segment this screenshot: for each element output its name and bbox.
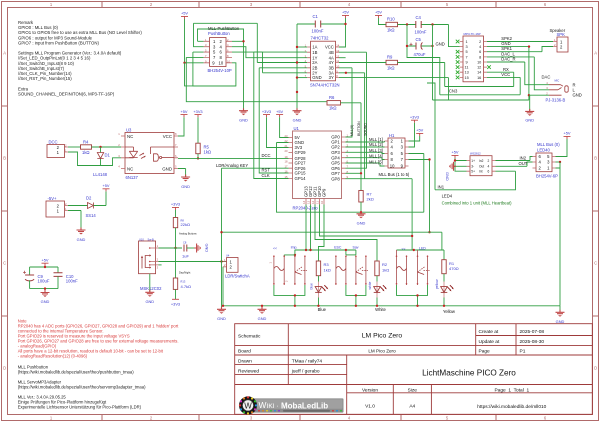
junction WS2812 vcc: [454, 159, 456, 161]
svg-text:GP15: GP15: [295, 171, 307, 176]
remark text block top-left: [18, 20, 142, 96]
svg-text:GND: GND: [162, 166, 172, 171]
wire cap top rail: [30, 267, 58, 275]
svg-text:3-: 3-: [471, 165, 474, 169]
title block horizontal dividers: [476, 335, 593, 337]
wire D2 to +5V: [94, 191, 107, 205]
ground (supply): [77, 228, 86, 235]
power +3V3 (U1): [262, 109, 271, 117]
svg-text:LL4148: LL4148: [93, 172, 108, 177]
svg-text:PJ-3136-B: PJ-3136-B: [546, 98, 566, 103]
svg-text:jueff / gerabo: jueff / gerabo: [291, 368, 320, 374]
resistor R5: [196, 143, 211, 154]
wire pushbutton pin9 row: [185, 62, 204, 64]
svg-text:12: 12: [477, 66, 481, 70]
wire +5V rail down left of pushbutton: [184, 19, 186, 63]
junction bus pair1: [294, 305, 296, 307]
power +3V3 (divider top): [171, 202, 180, 210]
svg-text:LM Pico Zero: LM Pico Zero: [362, 332, 403, 339]
TITLEBLOCK: [235, 324, 593, 415]
svg-text:10: 10: [390, 164, 395, 169]
svg-text:19: 19: [285, 155, 288, 159]
svg-text:4Y: 4Y: [329, 60, 334, 65]
svg-text:+3V3: +3V3: [171, 302, 180, 307]
svg-text:14: 14: [477, 71, 481, 75]
svg-text:GPIO7 : input from PushButton: GPIO7 : input from PushButton (BUTTON): [18, 40, 99, 45]
button S1 <<: [269, 246, 289, 285]
no-connect X mark CN3 pin12: [487, 65, 491, 69]
wire VCC pin16: [440, 77, 520, 94]
svg-text:NC: NC: [127, 134, 133, 139]
svg-text:(https://wiki.mobaledlib.de/sp: (https://wiki.mobaledlib.de/spezial/user…: [18, 384, 146, 389]
junction pair2 bottom: [355, 294, 357, 296]
svg-text:+5V: +5V: [180, 109, 187, 114]
svg-text:GND: GND: [293, 118, 302, 123]
wire jack sleeve row: [529, 94, 549, 96]
junction LED40 pin3: [559, 161, 561, 163]
wire pair2 tops tie: [346, 254, 356, 256]
capacitor C1: [297, 14, 346, 34]
wire pair3 feed: [397, 249, 445, 251]
junction pair1 bottom: [294, 294, 296, 296]
svg-text:22kΩ: 22kΩ: [181, 222, 190, 227]
ground (opto): [181, 175, 190, 182]
svg-text:IN2: IN2: [520, 155, 527, 160]
wire GP7 to BUTTON junction: [346, 172, 362, 174]
wire +5V to R10: [379, 18, 387, 25]
wire switch gnd: [149, 274, 151, 293]
svg-text:5+: 5+: [471, 170, 475, 174]
junction pair3 bottom: [416, 294, 418, 296]
svg-text:A4: A4: [409, 404, 415, 410]
wire node to switch pin1: [159, 247, 183, 249]
opto internal LED: [125, 147, 138, 158]
wire LED40 pin3: [556, 161, 561, 163]
svg-text:blue: blue: [310, 283, 314, 290]
wire RST vertical to GP15: [259, 68, 307, 173]
svg-text:Size: Size: [408, 388, 418, 394]
svg-text:LDR/Analog KEY: LDR/Analog KEY: [216, 163, 248, 168]
svg-text:LichtMaschine PICO Zero: LichtMaschine PICO Zero: [422, 369, 516, 378]
svg-text:Day/Night: Day/Night: [179, 270, 191, 274]
svg-text:BH254V-10P: BH254V-10P: [208, 68, 232, 73]
resistor R6: [327, 95, 341, 110]
svg-text:Version: Version: [362, 388, 378, 394]
wire pushbutton pin2 down to gnd: [243, 41, 245, 110]
svg-text:470uF: 470uF: [414, 52, 426, 57]
svg-text:V1.0: V1.0: [365, 404, 375, 410]
wire DAC_R: [487, 62, 549, 85]
svg-text:GND: GND: [258, 316, 267, 321]
svg-text:Reviewed: Reviewed: [238, 368, 259, 374]
power +5V (caps): [41, 257, 48, 267]
svg-text:MLL [2]: MLL [2]: [369, 142, 383, 147]
wire GP1 to H1 pin2 (MLL[1]): [346, 141, 385, 142]
wire pushbutton pin7 row to R6 trunk: [186, 57, 327, 101]
resistor R7: [359, 191, 374, 203]
svg-text:+5V: +5V: [416, 128, 423, 133]
svg-text:100uF: 100uF: [38, 279, 50, 284]
svg-text:15: 15: [285, 175, 288, 179]
wire pair1 tops tie: [284, 254, 295, 257]
svg-text:9: 9: [466, 61, 468, 65]
svg-text:Yellow: Yellow: [443, 309, 456, 314]
capacitor C10: [54, 273, 79, 289]
svg-text:PushButton: PushButton: [208, 31, 230, 36]
svg-text:WS2812: WS2812: [470, 152, 481, 156]
wire R9 to RX rail: [398, 62, 445, 64]
resistor R1 + yellow LED: [442, 250, 459, 274]
wire opto GND pin5: [178, 169, 186, 178]
svg-text:GND: GND: [357, 220, 366, 225]
svg-text:20: 20: [285, 149, 288, 153]
wire Out to LED40: [496, 162, 533, 166]
resistor R2 + white LED: [375, 261, 389, 276]
svg-text:A: A: [3, 51, 6, 56]
svg-text:RST: RST: [262, 168, 271, 173]
svg-text:yellow: yellow: [435, 279, 439, 289]
svg-text:16: 16: [477, 76, 481, 80]
wire pushbutton loop inner: [198, 29, 244, 41]
wire DCC pin2 to R4: [68, 146, 81, 148]
power +5V (pushbutton rail): [181, 11, 188, 19]
junction H1 pin7: [428, 158, 430, 160]
svg-text:White: White: [375, 307, 386, 312]
svg-text:MLL(0): MLL(0): [350, 125, 354, 136]
svg-text:Create at: Create at: [479, 329, 499, 335]
junction C5 right: [431, 45, 433, 47]
junction GP12 feed: [309, 249, 311, 251]
U1 bottom pin labels rotated: [303, 186, 326, 197]
svg-text:DCC: DCC: [49, 140, 58, 145]
svg-text:C: C: [3, 261, 6, 266]
wire -5V+ pin1 to gnd: [68, 211, 81, 231]
resistor R4: [81, 140, 92, 156]
svg-text:6N137: 6N137: [126, 175, 139, 180]
svg-text:(https://wiki.mobaledlib.de/sp: (https://wiki.mobaledlib.de/spezial/user…: [18, 369, 135, 374]
svg-text:GND: GND: [556, 319, 565, 324]
svg-text:Blue: Blue: [318, 307, 327, 312]
svg-text:2kΩ: 2kΩ: [367, 196, 374, 201]
svg-text:Update at: Update at: [479, 339, 500, 345]
svg-text:Experimentelle Lichtsensor Unt: Experimentelle Lichtsensor Unterstützung…: [18, 404, 142, 409]
wire LDR KEY line: [222, 168, 289, 306]
svg-text:GND: GND: [217, 316, 226, 321]
svg-text:470Ω: 470Ω: [449, 266, 459, 271]
svg-text:GND: GND: [436, 41, 445, 46]
ground (cap, rotated): [194, 244, 201, 253]
svg-text:Analog Buttons: Analog Buttons: [179, 232, 197, 236]
power +3V3 (R5 pullup): [193, 109, 202, 117]
junction bus pair3: [416, 305, 418, 307]
junction bus yellow led: [443, 305, 445, 307]
wire R8 to switch node: [175, 228, 177, 248]
junction R7 gnd: [360, 211, 362, 213]
connector H1: [379, 133, 410, 177]
wire pair3 bottoms: [397, 285, 428, 306]
svg-text:U3: U3: [126, 128, 132, 133]
diode D2 SS14: [86, 195, 97, 217]
junction U2 pin4: [296, 61, 298, 63]
svg-text:GP14: GP14: [295, 176, 307, 181]
junction pair1 top: [294, 254, 296, 256]
svg-text:+3V3: +3V3: [171, 202, 180, 207]
svg-text:<<: <<: [273, 246, 277, 250]
svg-text:ESC: ESC: [334, 246, 342, 250]
power +5V (WS2812): [451, 150, 458, 158]
svg-text:C8: C8: [183, 241, 187, 245]
wire R7 to gnd run: [360, 202, 362, 212]
wire +5V to LED40 pin5: [556, 139, 568, 157]
svg-text:GP2: GP2: [331, 145, 340, 150]
wire gnd trunk left of U2: [296, 24, 298, 111]
svg-text:+5V: +5V: [451, 150, 458, 155]
svg-text:IKI: IKI: [267, 403, 275, 410]
svg-text:2025-07-08: 2025-07-08: [520, 329, 545, 335]
title block outline: [235, 324, 593, 415]
wire Int to IN1: [427, 83, 516, 190]
svg-text:17: 17: [285, 165, 288, 169]
led LED white: [368, 276, 387, 312]
junction C1 right: [344, 23, 346, 25]
capacitor C4: [415, 15, 427, 35]
svg-text:21: 21: [285, 144, 288, 148]
svg-text:GP4: GP4: [331, 155, 340, 160]
svg-text:22: 22: [285, 139, 288, 143]
junction GP10 pair3: [411, 235, 413, 237]
button S5 <<: [396, 247, 408, 285]
wire RX rail: [445, 63, 514, 87]
wire GP11 to R2 white led: [315, 205, 377, 262]
svg-text:8: 8: [479, 55, 481, 59]
svg-text:GP8: GP8: [331, 176, 340, 181]
wire U2 pin9 3A to SOUND vertical: [339, 73, 365, 179]
svg-text:LED40: LED40: [537, 147, 550, 152]
svg-text:MLL [5]: MLL [5]: [369, 159, 383, 164]
wire R10 to C4: [398, 24, 449, 26]
svg-text:SS14: SS14: [86, 213, 97, 218]
svg-text:1kΩ: 1kΩ: [329, 106, 337, 111]
svg-text:100nF: 100nF: [312, 29, 324, 34]
wire +3V3 to U1 3V3: [267, 117, 289, 147]
svg-text:13: 13: [465, 71, 469, 75]
svg-text:1uF: 1uF: [182, 253, 189, 258]
svg-text:2A: 2A: [312, 60, 317, 65]
svg-text:W: W: [244, 401, 252, 410]
no-connect X marks CN3 left: [456, 40, 460, 79]
junction bus blue led: [317, 305, 319, 307]
svg-text:SOUND: SOUND: [363, 123, 367, 136]
svg-text:U1: U1: [294, 126, 300, 131]
button S3 ESC: [334, 246, 347, 285]
junction trunk: [296, 91, 298, 93]
svg-text:C1: C1: [313, 14, 319, 19]
svg-text:23: 23: [285, 134, 288, 138]
svg-text:1kΩ: 1kΩ: [387, 28, 395, 33]
wire +5V to opto VCC: [178, 117, 184, 136]
svg-text:D1: D1: [105, 153, 111, 158]
svg-text:MobaLedLib: MobaLedLib: [281, 401, 328, 410]
wire GP3 to H1 pin6 (MLL[3]): [346, 152, 385, 153]
power +5V (U1): [276, 109, 283, 117]
optocoupler U3 6N137: [118, 128, 178, 174]
svg-text:2: 2: [479, 40, 481, 44]
power +5V (MP3 supply): [375, 10, 382, 18]
svg-text:OUT: OUT: [519, 161, 528, 166]
svg-text:R10: R10: [387, 17, 395, 22]
svg-text:2025-08-30: 2025-08-30: [520, 339, 545, 345]
svg-text:C: C: [594, 261, 597, 266]
svg-text:3: 3: [466, 45, 468, 49]
svg-text:A: A: [594, 51, 597, 56]
svg-text:6: 6: [479, 50, 481, 54]
svg-text:1kΩ: 1kΩ: [387, 66, 395, 71]
wire LDR pin2 down to bus: [222, 267, 224, 306]
wire gnd to CN3 pin3: [449, 25, 460, 47]
junction cap bottom: [44, 287, 46, 289]
svg-text:5: 5: [466, 50, 468, 54]
wire R4 to opto pin2: [92, 146, 122, 148]
wire SPK1 to speaker pin2: [487, 47, 553, 52]
wire GP10 to pair3 feed: [320, 205, 413, 237]
resistor R9: [386, 55, 398, 71]
wire U2 pin12 4A stub: [339, 57, 346, 59]
junction C4 right: [431, 23, 433, 25]
junction bus pair2: [355, 305, 357, 307]
resistor R8 22k: [173, 218, 190, 228]
svg-text:GND: GND: [312, 75, 321, 80]
svg-text:-5V+: -5V+: [48, 196, 58, 201]
note text block bottom-left (black links): [18, 364, 146, 409]
svg-text:14: 14: [302, 200, 306, 203]
wire GP13 to button feed line: [305, 205, 307, 251]
svg-text:GND: GND: [181, 184, 190, 189]
svg-text:4.7kΩ: 4.7kΩ: [181, 284, 192, 289]
connector DAC jack PJ-3136-B: [542, 75, 582, 103]
svg-text:10: 10: [477, 61, 481, 65]
wire button feed line: [295, 250, 356, 255]
svg-text:18: 18: [285, 160, 288, 164]
svg-text:D: D: [594, 366, 597, 371]
module LED4 WS2812: [467, 152, 496, 176]
svg-text:4B: 4B: [329, 50, 334, 55]
svg-text:1B: 1B: [312, 50, 317, 55]
connector LED40 MLL Bus (0): [533, 142, 561, 178]
connector SW1 MLL-PushButton BH254V-10P: [204, 26, 240, 73]
svg-text:11: 11: [465, 66, 469, 70]
wire gnd rail under CN3: [433, 99, 529, 101]
wire R6 to BUTTON vertical: [341, 103, 362, 191]
ground (DAC): [525, 109, 534, 116]
wire DAC_L: [487, 57, 549, 90]
svg-text:R9: R9: [387, 55, 393, 60]
svg-text:GND: GND: [239, 118, 248, 123]
wire GP9 to R3 blue led: [318, 205, 324, 262]
wire RX: [487, 72, 514, 86]
svg-text:SOUND_CHANNEL_DEFINITON(6, MP3: SOUND_CHANNEL_DEFINITON(6, MP3-TF-16P): [18, 91, 115, 96]
svg-text:SN74AHCT32N: SN74AHCT32N: [310, 83, 340, 88]
capacitor C9 electrolytic: [23, 271, 50, 289]
svg-text:1kΩ: 1kΩ: [204, 149, 212, 154]
wire In2 from LED40: [496, 157, 533, 161]
wire switch pin2 to LDR connector: [159, 261, 227, 263]
svg-text:white: white: [368, 281, 372, 289]
wire DCC pin1 loop to opto pin3: [68, 152, 121, 166]
junction LDR trunk: [220, 260, 222, 262]
wire U2 pin1: [297, 46, 307, 48]
ground (bus right / LED40): [556, 306, 565, 324]
button S6 LED: [417, 246, 430, 285]
svg-text:4: 4: [488, 165, 490, 169]
svg-text:IN1: IN1: [438, 184, 445, 189]
svg-text:+5V: +5V: [102, 183, 109, 188]
title block vertical dividers: [287, 324, 289, 385]
wire -5V+ pin2 to D2: [68, 205, 88, 207]
svg-text:13: 13: [307, 200, 311, 203]
junction pair3 feed: [413, 249, 415, 251]
wire ground bus: [222, 305, 561, 307]
wire cap bottom rail: [30, 289, 58, 293]
svg-text:+3V3: +3V3: [193, 109, 202, 114]
wire U2 pin7: [297, 77, 307, 79]
svg-text:TMaa / raily74: TMaa / raily74: [292, 358, 323, 364]
wire H1 pin5 down: [409, 154, 424, 213]
junction pushbutton rail: [183, 62, 185, 64]
svg-text:LM Pico Zero: LM Pico Zero: [368, 348, 396, 353]
svg-text:VCC: VCC: [501, 72, 510, 77]
junction VCC rail: [406, 23, 408, 25]
svg-text:VCC: VCC: [163, 134, 172, 139]
resistor R10: [386, 17, 398, 33]
svg-text:H1: H1: [389, 133, 395, 138]
wire CLK vertical to GP14: [254, 52, 307, 178]
junction spk gnd: [528, 45, 530, 47]
svg-text:RP2040-Zero: RP2040-Zero: [293, 205, 319, 210]
svg-text:MLL [4]: MLL [4]: [369, 153, 383, 158]
svg-text:Int: Int: [479, 170, 483, 174]
wire rail to loop bottom: [185, 63, 236, 86]
logo WIKI MobaLedLib: [239, 396, 344, 414]
svg-text:+5V: +5V: [375, 10, 382, 15]
resistor R13 4.7k: [173, 278, 191, 289]
diode D1 LL4148: [93, 147, 111, 177]
ground (below pushbutton): [239, 108, 248, 115]
svg-text:7: 7: [466, 55, 468, 59]
svg-text:D2: D2: [86, 195, 92, 200]
border column ticks bottom: [102, 415, 496, 421]
ground (bus mid): [258, 305, 267, 321]
ground (bus left): [217, 306, 226, 321]
power +5V (supply in): [102, 183, 109, 191]
svg-text:16: 16: [285, 170, 288, 174]
svg-text:MLL [3]: MLL [3]: [369, 148, 383, 153]
border column ticks top: [102, 2, 496, 8]
wire pushbutton pin6 to 2Y: [232, 52, 307, 73]
junction U2 pin7: [296, 76, 298, 78]
svg-text:+5V: +5V: [276, 109, 283, 114]
svg-text:Out: Out: [479, 165, 484, 169]
ground (R7): [357, 211, 366, 218]
svg-text:1kΩ: 1kΩ: [324, 267, 331, 272]
ground (U2 trunk): [293, 108, 302, 115]
wire R5 to DCC line: [197, 154, 199, 159]
wire pair1 bottoms: [274, 285, 305, 306]
svg-text:GND: GND: [205, 244, 210, 253]
wire CN3 gnd down: [487, 47, 529, 100]
svg-text:DAC: DAC: [542, 75, 551, 80]
ground (caps): [41, 290, 50, 297]
svg-text:GP7: GP7: [331, 171, 340, 176]
